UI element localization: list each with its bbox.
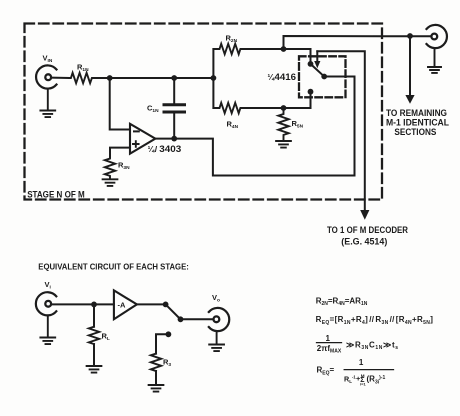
switch pole dot	[163, 302, 169, 308]
svg-text:STAGE N OF M: STAGE N OF M	[27, 190, 85, 201]
connector Vo (BNC)	[209, 308, 229, 331]
connector Vi (BNC)	[36, 292, 56, 315]
svg-text:M-1 IDENTICAL: M-1 IDENTICAL	[386, 118, 449, 128]
analog switch U2 1/4 4416 dashed box	[299, 56, 346, 97]
junction dot output rail	[407, 33, 413, 39]
switch pin dot common	[321, 74, 327, 80]
wire to op-amp inverting input	[110, 78, 130, 130]
wire Vi to amp	[51, 303, 114, 305]
junction dot node A	[107, 75, 113, 81]
label TO REMAINING M-1 IDENTICAL SECTIONS	[386, 108, 449, 137]
ground (under RL)	[87, 366, 102, 373]
wire op-amp output feedback to switch	[155, 77, 354, 176]
ground (under R5N)	[276, 141, 291, 148]
junction dot C1N top	[171, 75, 177, 81]
wire Vin to R1N	[51, 77, 69, 79]
stage dashed box	[25, 24, 383, 200]
svg-text:TO REMAINING: TO REMAINING	[386, 108, 447, 118]
arrow to decoder	[360, 210, 369, 220]
switch control gate arrow	[314, 51, 320, 68]
ground (under Vo)	[209, 331, 224, 351]
label TO 1 OF M DECODER	[327, 225, 408, 247]
capacitor C1N	[164, 78, 185, 139]
svg-text:1: 1	[326, 334, 331, 343]
switch throw dot to R3	[166, 331, 172, 337]
switch throw dot to Vo	[178, 316, 184, 322]
ground (under J2)	[428, 48, 441, 73]
svg-text:i=1: i=1	[360, 382, 366, 387]
resistor R1N	[69, 73, 95, 83]
arrow to remaining sections	[405, 36, 414, 104]
connector J2 output (BNC)	[427, 25, 447, 48]
svg-text:-A: -A	[118, 301, 126, 310]
op-amp U1 1/4 3403	[130, 124, 155, 154]
wire amp to switch	[137, 303, 166, 305]
ground (under Vin BNC)	[40, 89, 55, 117]
switch pin dot top	[308, 61, 314, 67]
resistor R3	[151, 354, 161, 385]
junction dot R4N node	[281, 105, 287, 111]
wire switch bottom terminal	[284, 92, 311, 108]
amplifier -A	[114, 290, 137, 319]
junction dot RL	[91, 302, 97, 308]
svg-text:(E.G. 4514): (E.G. 4514)	[341, 236, 387, 246]
junction dot op-amp output	[171, 136, 177, 142]
wire R3 throw	[156, 334, 168, 353]
equation 3: 1/(2 pi fmax) >> R3N C1N >> ts	[317, 334, 399, 355]
switch arm (equivalent)	[166, 304, 181, 319]
resistor RL	[89, 304, 99, 366]
switch pin dot bottom	[308, 89, 314, 95]
wire output rail to BNC	[284, 36, 432, 49]
wire control to decoder	[317, 51, 365, 210]
resistor R3N	[105, 157, 115, 179]
resistor R5N	[278, 108, 288, 140]
junction dot R2N output node	[281, 46, 287, 52]
svg-text:EQUIVALENT CIRCUIT OF EACH STA: EQUIVALENT CIRCUIT OF EACH STAGE:	[38, 261, 189, 271]
wire switch top terminal	[284, 49, 311, 64]
svg-text:1: 1	[359, 358, 364, 367]
junction dot node rail	[211, 75, 217, 81]
svg-text:TO 1 OF M DECODER: TO 1 OF M DECODER	[327, 225, 408, 235]
equation 4: REQ = 1/(RL^-1 + sum (R3i)^-1)	[317, 358, 394, 387]
resistor R2N	[213, 44, 283, 54]
ground (under R3N)	[103, 179, 118, 186]
switch arm	[311, 64, 325, 77]
connector J1 Vin (BNC)	[36, 65, 56, 88]
wire input node	[95, 77, 213, 79]
svg-text:3403: 3403	[159, 144, 181, 154]
wire rail R2N-R4N	[212, 49, 214, 108]
resistor R4N	[213, 103, 283, 113]
wire to op-amp non-inverting input	[110, 148, 130, 157]
svg-text:4416: 4416	[275, 72, 297, 82]
ground (under R3)	[149, 385, 164, 392]
svg-text:SECTIONS: SECTIONS	[394, 127, 436, 137]
wire to Vo	[181, 318, 214, 320]
ground (under Vi)	[40, 315, 55, 344]
